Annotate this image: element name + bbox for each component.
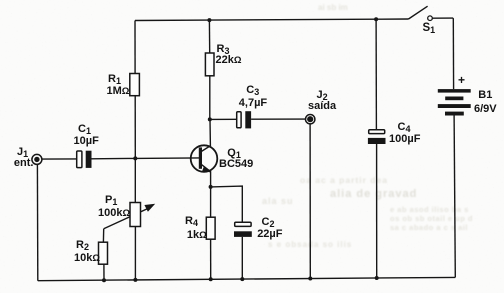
wire top rail bbox=[135, 19, 409, 21]
wire R3 top rail to R3 bbox=[208, 20, 210, 53]
label J2 saída bbox=[308, 101, 336, 112]
label S1 bbox=[423, 23, 436, 35]
battery B1 plate long top bbox=[438, 89, 471, 93]
label R3 value 22kΩ bbox=[216, 55, 242, 66]
label R4 value 1kΩ bbox=[187, 230, 207, 241]
label battery plus bbox=[458, 74, 465, 86]
wire C3 to J2 bbox=[251, 118, 306, 120]
wire collector junction to C3 bbox=[210, 118, 237, 120]
node ground J2 bbox=[308, 277, 312, 281]
node ground C4 bbox=[375, 276, 379, 280]
label J1 ent. bbox=[14, 158, 34, 169]
node top rail R3 bbox=[207, 18, 211, 22]
wire P1 bottom to ground rail bbox=[134, 227, 136, 280]
switch S1 contact circle bbox=[428, 16, 433, 21]
node emitter C2 junction bbox=[209, 185, 213, 189]
wire R2 top to wiper diagonal bbox=[102, 229, 104, 242]
wire S1 to battery branch bbox=[432, 17, 453, 19]
wire Q1 emitter lead bbox=[202, 165, 211, 187]
capacitor C4 positive plate bbox=[369, 130, 385, 134]
ghost bleed-through text row 3 bbox=[262, 196, 294, 206]
label C2 bbox=[262, 217, 275, 229]
ghost bleed-through text block right bbox=[390, 205, 473, 232]
wire J2 down to ground rail bbox=[309, 124, 311, 279]
battery B1 plate short bbox=[445, 97, 463, 101]
node ground P1 bbox=[133, 278, 137, 282]
capacitor C3 negative plate bbox=[245, 111, 251, 128]
wire C4 bottom to ground rail bbox=[376, 144, 378, 278]
label R1 bbox=[108, 74, 121, 86]
wire R2 bottom to ground rail bbox=[103, 264, 105, 280]
label R3 bbox=[217, 44, 230, 56]
jack J2 tip dot bbox=[307, 116, 313, 122]
label C3 bbox=[246, 85, 259, 97]
label Q1 bbox=[227, 148, 241, 160]
label R4 bbox=[185, 216, 198, 228]
label P1 bbox=[105, 195, 117, 207]
label J1 bbox=[17, 147, 28, 159]
label C3 value 4,7µF bbox=[239, 98, 267, 109]
resistor R3 bbox=[205, 53, 214, 76]
label B1 value 6/9V bbox=[474, 104, 497, 115]
wire emitter junction to C2 bbox=[211, 186, 243, 222]
wire C2 bottom to ground rail bbox=[241, 237, 243, 279]
potentiometer P1 arrowhead bbox=[144, 204, 155, 212]
resistor R2 bbox=[99, 242, 108, 264]
wire left vertical above R1 bbox=[134, 21, 136, 74]
potentiometer P1 body bbox=[130, 203, 141, 227]
label B1 bbox=[478, 90, 492, 101]
transistor Q1 base bar bbox=[199, 147, 202, 168]
node collector C3 junction bbox=[208, 117, 212, 121]
node ground C2 bbox=[240, 277, 244, 281]
wire J1 to C1 bbox=[42, 158, 77, 160]
wire mid junction to P1 top bbox=[134, 158, 136, 202]
label J2 bbox=[317, 90, 328, 102]
wire top rail to C4 bbox=[375, 19, 377, 130]
node top rail C4 bbox=[374, 17, 378, 21]
capacitor C2 positive plate bbox=[235, 222, 251, 226]
label R1 value 1MΩ bbox=[107, 86, 130, 97]
battery B1 plate short bottom bbox=[445, 112, 464, 116]
transistor Q1 emitter arrowhead bbox=[202, 166, 211, 172]
ghost bleed-through text bottom bbox=[268, 240, 352, 249]
node ground R2 bbox=[102, 278, 106, 282]
wire P1 wiper diagonal bbox=[104, 208, 149, 229]
wire battery bottom lead bbox=[454, 116, 455, 278]
wire R3 bottom to collector junction bbox=[209, 76, 211, 120]
label C1 value 10µF bbox=[74, 136, 99, 147]
ghost bleed-through text row 2 bbox=[330, 188, 417, 200]
label R2 value 10kΩ bbox=[74, 253, 100, 264]
wire Q1 collector bbox=[202, 119, 211, 151]
switch S1 blade bbox=[409, 6, 428, 19]
label C4 value 100µF bbox=[389, 134, 420, 145]
wire battery top lead bbox=[452, 18, 454, 89]
capacitor C4 negative plate bbox=[368, 138, 386, 144]
label C4 bbox=[398, 122, 411, 134]
label P1 value 100kΩ bbox=[98, 208, 130, 219]
jack J1 tip dot bbox=[34, 157, 39, 162]
jack J1 ring bbox=[32, 154, 42, 164]
label Q1 type BC549 bbox=[219, 159, 253, 170]
capacitor C1 positive plate bbox=[77, 151, 82, 168]
transistor Q1 circle bbox=[191, 145, 218, 172]
label C1 bbox=[78, 124, 91, 136]
capacitor C2 negative plate bbox=[234, 231, 252, 237]
wire R1 bottom to mid junction bbox=[134, 96, 136, 159]
resistor R1 bbox=[130, 74, 140, 96]
ghost bleed-through text top bbox=[318, 3, 348, 12]
battery B1 plate long bbox=[438, 104, 471, 108]
jack J2 ring bbox=[306, 115, 315, 124]
label R2 bbox=[76, 240, 89, 252]
resistor R4 bbox=[206, 217, 215, 239]
node base junction bbox=[133, 156, 137, 160]
label C2 value 22µF bbox=[257, 229, 282, 240]
wire ground rail bbox=[38, 277, 456, 280]
node ground R4 bbox=[209, 277, 213, 281]
wire C1 to base junction to Q1 base bbox=[92, 157, 200, 160]
wire emitter junction down to R4 bbox=[210, 187, 212, 217]
capacitor C1 negative plate bbox=[86, 151, 92, 168]
wire J1 down to ground rail bbox=[36, 164, 38, 281]
ghost bleed-through text row 1 bbox=[300, 175, 388, 185]
wire R4 bottom to ground rail bbox=[210, 239, 212, 279]
capacitor C3 positive plate bbox=[237, 112, 241, 128]
